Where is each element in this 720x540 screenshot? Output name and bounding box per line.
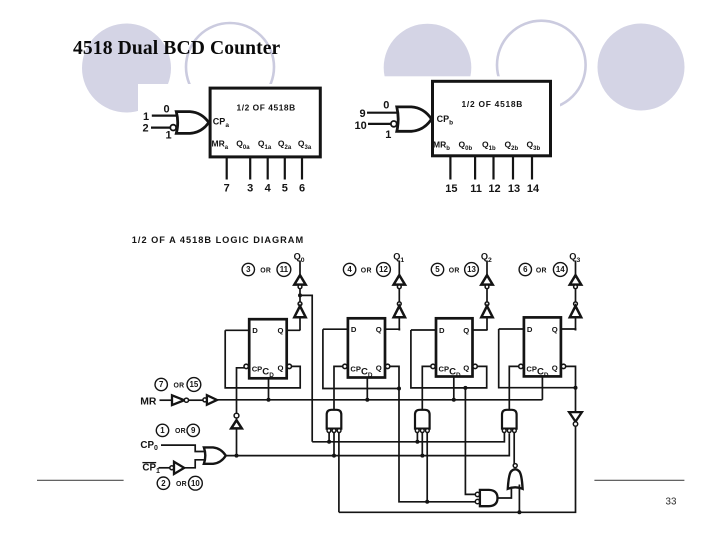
inverter CP1 [174,462,184,474]
svg-text:4: 4 [347,265,352,274]
inverter Q3 (down) triangle [569,412,582,422]
AND2 input bubble 2 [420,429,424,433]
scan1 white background [138,84,332,205]
svg-text:5: 5 [435,265,440,274]
svg-text:Q: Q [463,364,469,373]
pin circle 1 [156,424,168,436]
flip-flop FF4 box [524,317,561,376]
wire D3 input [411,329,436,331]
AND2 input bubble 1 [415,429,419,433]
U2 pin 14 lead [531,156,533,180]
bubble on pin 2 input [170,125,176,131]
AND3 input bubble 1 [502,429,506,433]
svg-text:Q: Q [376,364,382,373]
svg-text:14: 14 [556,265,565,274]
input inverter col 3 (triangle) [570,306,581,317]
wire G4 output to NOR [498,487,512,499]
wire AND2 in1 to Q0 bus [416,433,418,442]
wire AND2 in3 down [426,433,428,502]
node CD3 on MR bus [452,398,456,402]
U1 pin 6 lead [301,157,303,180]
input inverter col 1 (triangle) [394,306,405,317]
wire FF1 feedback loop [225,330,300,388]
flip-flop FF3 box [436,318,473,376]
inverter MR B input bubble [203,398,207,402]
svg-text:6: 6 [523,265,528,274]
wire MR bus [217,399,542,401]
svg-text:MR: MR [140,396,157,407]
nor-gate G5 [508,469,523,488]
svg-text:12: 12 [488,183,500,195]
pin 9 input wire [367,112,398,114]
or-gate G3 clock [204,447,226,463]
svg-text:10: 10 [191,479,200,488]
U1 pin 4 lead [267,157,269,180]
svg-text:33: 33 [666,497,677,508]
wire between inverters col 0 [299,289,301,302]
node FF2 feedback junction [397,387,401,391]
svg-text:3: 3 [247,183,253,195]
wire MR between inverters [189,399,203,401]
and-gate AND1 [327,410,342,429]
decor outline circle 2 [186,23,274,111]
wire bottom bus [339,427,576,513]
wire FF2 Q to inverters [385,329,399,330]
FF3 Qbar output bubble [473,364,477,368]
svg-text:OR: OR [176,481,187,488]
node FF3 feedback tap [463,386,467,390]
svg-text:13: 13 [467,265,476,274]
svg-text:15: 15 [445,183,457,195]
svg-text:Q: Q [278,364,284,373]
wire D4 input [499,328,524,330]
AND1 input bubble 2 [332,429,336,433]
and-gate AND3 [502,410,517,429]
wire between inverters col 1 [398,289,400,302]
chip U2 box 1/2 OF 4518B [433,81,551,156]
input inverter col 0 bubble [298,302,302,306]
svg-text:Q: Q [376,325,382,334]
wire FF3 CD pin [453,377,455,400]
wire FF4 CD pin [541,376,543,399]
pin 1 input wire [152,114,178,116]
wire Q0 tap branch [300,295,312,441]
wire CP1 to gate [184,460,204,468]
wire Q3 down [575,261,577,276]
wire CP1 input [159,467,170,469]
svg-text:D: D [527,325,533,334]
wire AND1 in1 to Q0 bus [328,433,330,442]
FF3 CP input bubble [431,364,435,368]
svg-text:OR: OR [260,267,271,274]
svg-text:0: 0 [164,103,170,115]
AND3 input bubble 3 [513,429,517,433]
svg-text:11: 11 [470,183,482,195]
svg-text:OR: OR [536,267,547,274]
pin circle 12 [377,263,391,277]
svg-text:11: 11 [280,265,289,274]
wire AND1 output to CP [334,366,343,409]
pin circle 14 [553,263,567,277]
output inverter col 2 (triangle) [481,275,492,284]
inverter clock chain bubble [234,413,239,418]
pin circle 3 [242,263,254,275]
wire D2 input [323,328,348,330]
U2 pin 15 lead [449,156,451,180]
inverter MR B [207,395,217,405]
wire AND3 output to CP [509,366,518,409]
inverter clock chain [231,420,242,428]
FF1 Qbar output bubble [287,364,291,368]
FF4 Qbar output bubble [561,364,565,368]
pin 10 input wire [368,123,391,125]
FF1 CP input bubble [244,364,248,368]
wire AND2 output to CP [422,366,431,409]
pin circle 2 [157,477,169,489]
output inverter col 1 (triangle) [394,275,405,284]
nor-gate G5 output bubble [513,464,517,468]
wire NOR right input [518,485,520,513]
FF4 CP input bubble [519,364,523,368]
svg-text:6: 6 [299,183,305,195]
pin circle 10 [189,476,203,490]
input inverter col 2 bubble [485,302,489,306]
output inverter col 1 bubble [397,285,401,289]
wire inverter to Q net col 1 [398,317,400,330]
svg-text:12: 12 [379,265,388,274]
input inverter col 0 (triangle) [294,306,305,317]
wire inverter to Q net col 2 [486,317,488,330]
wire Qbar3 tap down [465,388,475,495]
decor filled circle 5 [598,24,685,111]
wire Q1 down [398,261,400,276]
wire FF2 feedback loop [323,329,399,388]
pin circle 7 [155,378,167,390]
svg-text:10: 10 [355,120,367,132]
wire Q2 down [486,261,488,276]
wire FF1 Q to inverters [287,329,300,331]
node AND1-Q0bus [327,440,331,444]
svg-text:OR: OR [175,428,186,435]
pin circle 6 [519,263,531,275]
scan3 white background [127,226,590,517]
U1 pin 3 lead [249,157,251,180]
wire Qbar4 to inverter [575,388,577,412]
svg-text:0: 0 [383,100,389,112]
decor filled circle 3 [384,24,472,112]
wire Q0 bus [312,433,504,442]
U2 pin 11 lead [474,156,476,180]
label CP1 overline [142,463,160,476]
svg-text:3: 3 [246,265,251,274]
svg-text:4518 Dual BCD Counter: 4518 Dual BCD Counter [73,38,281,59]
pin 2 input wire [151,126,170,128]
flip-flop FF1 box [249,319,287,378]
svg-text:OR: OR [174,382,185,389]
svg-text:2: 2 [143,123,149,135]
AND1 input bubble 1 [327,429,331,433]
svg-text:9: 9 [191,426,196,435]
wire FF4 Q to inverters [561,329,576,331]
FF2 Qbar output bubble [385,364,389,368]
wire FF3 feedback loop [411,330,487,388]
U2 pin 12 lead [492,156,494,180]
wire AND1 in3 to bottom bus [338,433,340,512]
node CD2 on MR bus [365,398,369,402]
AND1 input bubble 3 [337,429,341,433]
svg-text:7: 7 [159,380,164,389]
node clock tap FF1 chain [235,454,239,458]
svg-text:Q: Q [552,364,558,373]
wire chain to CP1 pin [237,368,245,414]
svg-text:D: D [439,326,445,335]
wire inverter to Q net col 0 [299,317,301,330]
and-gate AND2 [415,410,430,429]
wire FF4 feedback loop [499,329,576,388]
svg-text:Q: Q [463,326,469,335]
pin circle 15 [187,378,201,392]
wire D1 input [225,329,249,331]
inverter MR A bubble [184,398,188,402]
svg-text:15: 15 [190,380,199,389]
AND2 input bubble 3 [426,429,430,433]
pin circle 9 [187,424,199,436]
svg-text:14: 14 [527,183,540,195]
svg-text:1: 1 [385,129,391,141]
bottom rule right segment [594,479,684,481]
svg-text:1: 1 [160,426,165,435]
svg-text:7: 7 [224,183,230,195]
and-gate G4 bubble upper [475,492,479,496]
inverter CP1 input bubble [170,466,174,470]
U2 pin 13 lead [512,156,514,180]
wire AND1 in2 to clock bus [333,433,335,456]
wire Q0 down [299,261,301,276]
wire inverter to Q net col 3 [575,317,577,330]
svg-text:2: 2 [161,479,166,488]
pin circle 4 [343,263,355,275]
chip U1 box 1/2 OF 4518B [210,88,320,157]
input inverter col 3 bubble [574,302,578,306]
svg-text:Q: Q [278,326,284,335]
svg-text:1: 1 [143,111,149,123]
pin circle 11 [277,263,291,277]
svg-text:1: 1 [166,130,172,142]
svg-text:5: 5 [282,183,288,195]
svg-text:13: 13 [508,183,520,195]
scan2 white background [353,76,560,204]
inverter Q3 bubble [573,422,577,426]
svg-text:1/2 OF 4518B: 1/2 OF 4518B [462,99,524,109]
svg-text:Q: Q [552,325,558,334]
wire between inverters col 3 [575,289,577,302]
U1 pin 7 lead [226,157,228,180]
or-gate G1 (CPa input) [176,112,209,134]
node NOR input on bottom bus [517,510,521,514]
node CD1 on MR bus [267,398,271,402]
wire AND2 in2 to clock bus [421,433,423,456]
svg-text:1/2 OF 4518B: 1/2 OF 4518B [237,102,296,112]
decor filled circle 1 [82,24,171,113]
node AND2 in3 junction [425,500,429,504]
node AND2-Q0bus [415,440,419,444]
flip-flop FF2 box [348,318,385,377]
wire Qbar2 down [399,389,475,502]
wire between inverters col 2 [486,289,488,302]
svg-text:4: 4 [265,183,272,195]
bubble on pin 10 input [391,121,397,127]
svg-text:D: D [252,326,258,335]
node FF4 feedback junction [574,386,578,390]
output inverter col 0 (triangle) [294,275,305,284]
inverter MR A [172,395,184,405]
pin circle 13 [465,263,479,277]
pin circle 5 [431,263,443,275]
wire FF3 Q to inverters [473,329,488,332]
output inverter col 2 bubble [485,285,489,289]
svg-text:OR: OR [449,267,460,274]
output inverter col 3 (triangle) [570,275,581,284]
bottom rule left segment [37,479,124,481]
and-gate G4 [480,490,498,506]
output inverter col 0 bubble [298,285,302,289]
wire CP0 to gate [161,445,204,451]
and-gate G4 bubble lower [475,499,479,503]
output inverter col 3 bubble [574,285,578,289]
node clock tap AND2 [420,454,424,458]
node clock tap AND1 [332,454,336,458]
wire clock bus [226,433,510,455]
wire MR input [160,399,173,401]
input inverter col 2 (triangle) [481,306,492,317]
input inverter col 1 bubble [397,302,401,306]
svg-text:OR: OR [361,267,372,274]
wire AND3 in3 to NOR [513,433,515,465]
AND3 input bubble 2 [507,429,511,433]
svg-text:1/2 OF A 4518B LOGIC DIAGRAM: 1/2 OF A 4518B LOGIC DIAGRAM [132,235,304,245]
or-gate G2 (CPb input) [397,107,432,131]
U1 pin 5 lead [284,157,286,180]
FF2 CP input bubble [343,364,347,368]
wire clock chain vertical [236,428,238,455]
node Q0 tap junction [298,293,302,297]
wire FF2 CD pin [366,378,368,400]
decor outline circle 4 [497,21,586,110]
svg-text:9: 9 [360,108,366,120]
svg-text:D: D [351,325,357,334]
wire FF1 CD pin [268,378,270,400]
